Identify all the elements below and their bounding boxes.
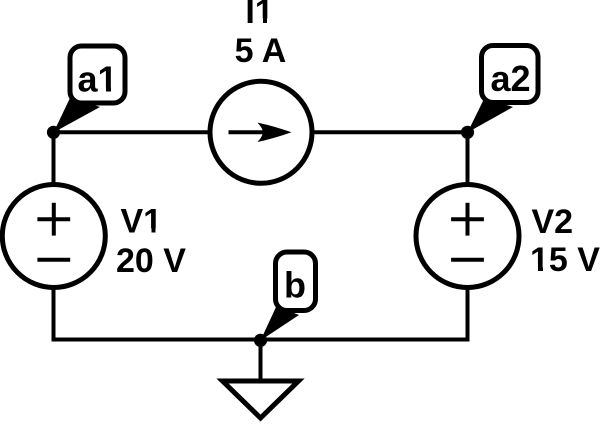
- voltage source V2: [416, 185, 519, 288]
- wire: bottom rail from V1 to V2 through node b: [52, 338, 470, 342]
- svg-text:a1: a1: [77, 59, 117, 100]
- wire: node a2 down to V2 top: [466, 132, 470, 187]
- voltage source V1: [2, 185, 105, 288]
- wire: I1 right terminal to node a2: [310, 130, 468, 134]
- svg-text:V2: V2: [532, 203, 574, 241]
- svg-text:5 A: 5 A: [235, 32, 287, 70]
- svg-text:a2: a2: [490, 58, 530, 99]
- node flag a1: [54, 46, 126, 133]
- svg-text:20 V: 20 V: [116, 242, 186, 280]
- wire: V2 bottom down to bottom rail: [466, 285, 470, 341]
- node flag a2: [468, 46, 539, 133]
- node flag b: [261, 252, 316, 341]
- current source I1: [210, 81, 312, 183]
- ground: [223, 340, 299, 419]
- wire: node a1 to I1 left terminal: [54, 130, 213, 134]
- node a2 junction dot: [461, 126, 474, 139]
- node a1 junction dot: [47, 126, 60, 139]
- svg-text:b: b: [284, 265, 306, 306]
- wire: node a1 down to V1 top: [52, 132, 56, 187]
- svg-text:I1: I1: [245, 0, 273, 31]
- svg-text:15 V: 15 V: [530, 241, 600, 279]
- node b junction dot: [254, 334, 267, 347]
- svg-text:V1: V1: [121, 203, 163, 241]
- wire: V1 bottom down to bottom rail: [52, 285, 56, 341]
